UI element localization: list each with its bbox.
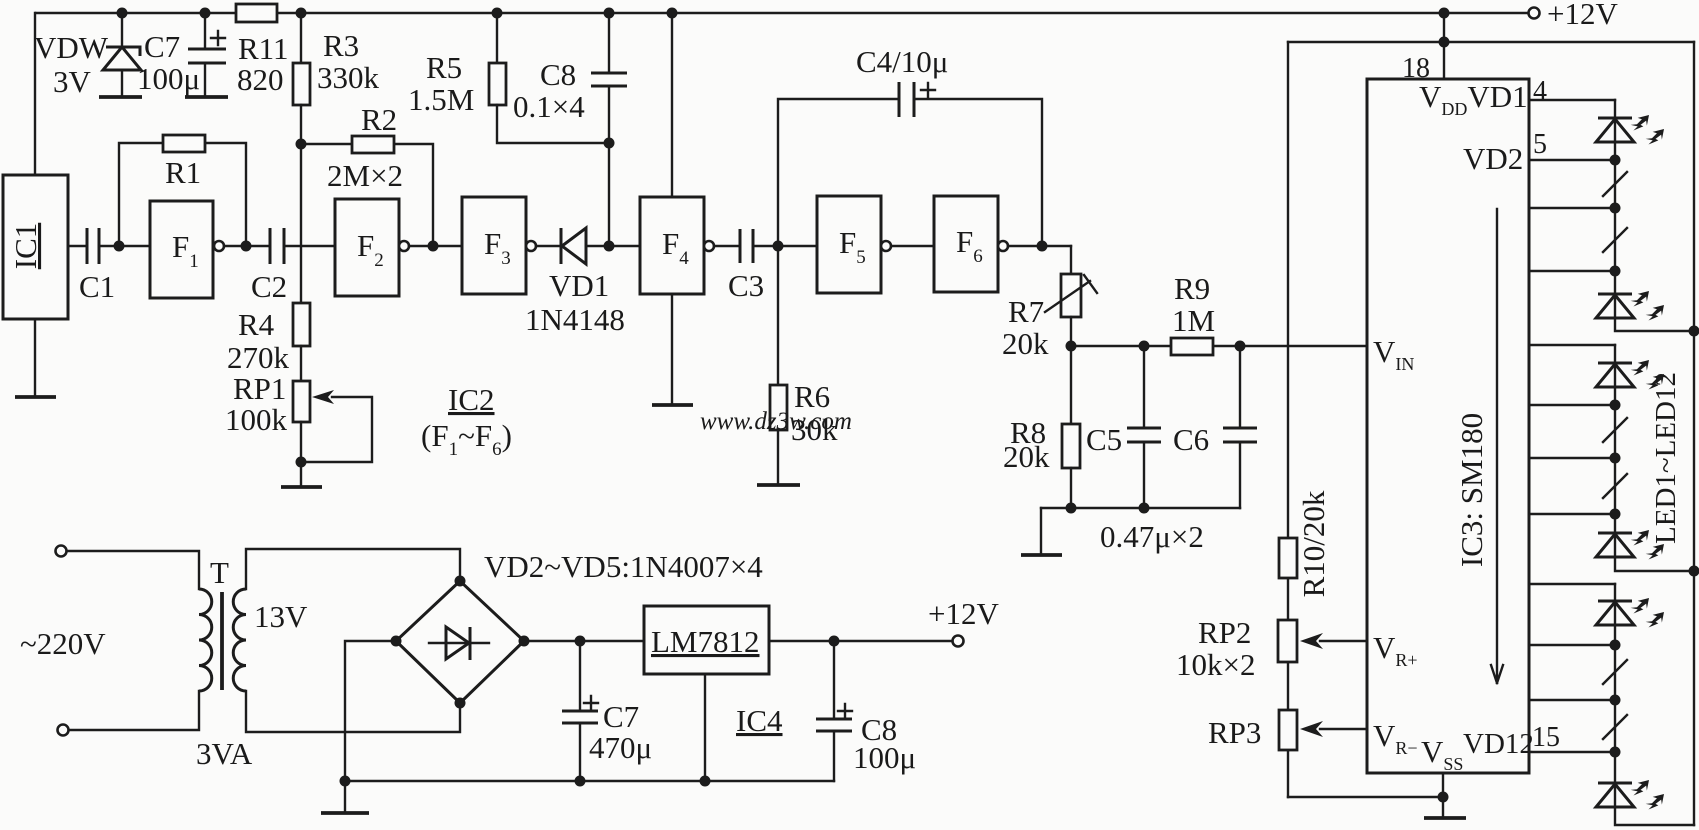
svg-text:C3: C3: [728, 268, 764, 303]
svg-text:C1: C1: [79, 269, 115, 304]
svg-text:10k×2: 10k×2: [1176, 647, 1255, 682]
svg-text:RP3: RP3: [1208, 715, 1261, 750]
wire: LED anode bus (right): [1689, 42, 1699, 825]
svg-text:R10/20k: R10/20k: [1296, 490, 1331, 597]
node: F5 input junction: [773, 241, 784, 252]
filter stage F6: [934, 196, 1008, 292]
svg-text:VD12: VD12: [1463, 728, 1534, 760]
ground (below C5 rail): [1021, 553, 1062, 557]
svg-text:C8: C8: [540, 57, 576, 92]
wire: +12V branch to IC3 (upper right): [1288, 13, 1694, 48]
wire: LED group1 column: [1610, 100, 1695, 331]
omitted LED mark: [1603, 172, 1627, 196]
wire: LED group2 column: [1610, 345, 1695, 571]
node: VD1 cathode junction: [604, 241, 615, 252]
resistor R3 (bias from +12V): [293, 13, 380, 303]
svg-text:IC2: IC2: [448, 382, 495, 417]
node: C8 junction: [829, 636, 840, 647]
filter stage F5: [817, 196, 891, 293]
svg-text:+12V: +12V: [1547, 0, 1618, 31]
svg-text:F3: F3: [484, 226, 511, 269]
label IC2 (F1~F6): [421, 382, 512, 460]
svg-text:C4/10μ: C4/10μ: [856, 44, 948, 79]
filter stage F4: [640, 197, 714, 294]
svg-text:270k: 270k: [227, 340, 290, 375]
svg-text:0.47μ×2: 0.47μ×2: [1100, 519, 1204, 554]
svg-text:0.1×4: 0.1×4: [513, 89, 585, 124]
capacitor C4 (10u feedback): [778, 44, 1042, 246]
svg-text:VSS: VSS: [1421, 734, 1463, 774]
op-amp U1: IC3 SM180 level driver box: [1367, 79, 1534, 774]
capacitor C7 (100u filter at VDW): [137, 13, 226, 96]
svg-text:F2: F2: [357, 228, 384, 271]
resistor R1 (feedback around F1): [119, 135, 246, 246]
node: C7 junction: [575, 636, 586, 647]
svg-text:VD1: VD1: [549, 268, 609, 303]
svg-text:C6: C6: [1173, 422, 1209, 457]
svg-text:(F1~F6): (F1~F6): [421, 418, 512, 460]
svg-text:3VA: 3VA: [196, 736, 253, 771]
node: R5/C8 junction: [604, 138, 615, 149]
svg-text:www.dz3w.com: www.dz3w.com: [700, 408, 852, 435]
wire: reference divider column: [1287, 42, 1289, 797]
zener diode VDW 3V: [34, 13, 141, 99]
svg-text:C5: C5: [1086, 422, 1122, 457]
wire: regulator output: [769, 640, 953, 642]
node: RP1 wiper tie junction: [296, 457, 307, 468]
capacitor C6: [1173, 346, 1257, 508]
svg-text:2M×2: 2M×2: [327, 158, 403, 193]
resistor R8 (20k): [1003, 346, 1080, 508]
node +12V terminal (top right): [1529, 0, 1619, 31]
potentiometer RP1: [225, 371, 372, 487]
label T / 13V / 3VA: [196, 555, 308, 771]
svg-text:F5: F5: [839, 225, 866, 268]
svg-text:F4: F4: [662, 226, 689, 269]
svg-text:C7: C7: [144, 29, 180, 64]
svg-text:RP1: RP1: [233, 371, 286, 406]
svg-text:VD2~VD5:1N4007×4: VD2~VD5:1N4007×4: [484, 549, 763, 584]
svg-text:4: 4: [1533, 76, 1547, 107]
svg-text:1M: 1M: [1172, 303, 1215, 338]
filter stage F1: [150, 201, 224, 298]
wire: LED group3 column: [1610, 584, 1695, 825]
svg-text:T: T: [210, 555, 229, 590]
wire: IC1 to ground: [34, 319, 36, 397]
wire: LED group1 pin stubs: [1529, 100, 1615, 271]
ground (below RP1): [281, 485, 322, 489]
LED LED5: [1596, 356, 1668, 394]
wire: F4 supply stub: [671, 13, 673, 197]
svg-text:13V: 13V: [254, 599, 308, 634]
svg-text:RP2: RP2: [1198, 615, 1251, 650]
svg-text:1N4148: 1N4148: [525, 302, 625, 337]
node: ground rail junction: [340, 776, 351, 787]
wire: +12V top supply bus: [36, 8, 1528, 19]
node: R2 branch junction: [296, 139, 307, 150]
wire: VSS return: [1288, 773, 1449, 818]
LED LED4: [1596, 287, 1668, 325]
svg-text:R5: R5: [426, 50, 462, 85]
potentiometer RP3: [1208, 710, 1367, 750]
omitted LED mark: [1603, 418, 1627, 442]
resistor R11: [236, 4, 289, 97]
svg-text:R2: R2: [361, 102, 397, 137]
svg-text:20k: 20k: [1003, 439, 1050, 474]
resistor R9 (1M): [1171, 271, 1215, 355]
svg-text:VD2: VD2: [1463, 141, 1523, 176]
resistor R10 (20k): [1279, 490, 1331, 597]
wire: LED group3 pin stubs: [1529, 584, 1615, 752]
LED LED8: [1596, 526, 1668, 564]
capacitor C7 (470u): [562, 641, 652, 781]
svg-text:IC4: IC4: [736, 703, 783, 738]
svg-text:820: 820: [237, 62, 284, 97]
wire: bridge negative to ground rail: [345, 641, 396, 781]
omitted LED mark: [1603, 715, 1627, 739]
svg-text:VR−: VR−: [1373, 718, 1418, 758]
ground (below F4): [652, 403, 693, 407]
svg-text:LM7812: LM7812: [651, 624, 760, 659]
regulator IC4 LM7812: [644, 606, 783, 738]
ground (below C7): [185, 95, 228, 99]
wire: mains to transformer primary: [67, 551, 199, 730]
resistor R6 (30k): [770, 246, 838, 485]
omitted LED mark: [1603, 228, 1627, 252]
svg-text:F1: F1: [172, 229, 199, 272]
node: F6 output junction: [1037, 241, 1048, 252]
svg-text:F6: F6: [956, 224, 983, 267]
wire: F6 out: [1008, 245, 1071, 247]
svg-text:C2: C2: [251, 269, 287, 304]
resistor R4: [227, 303, 310, 381]
ground (below VDW): [99, 95, 142, 99]
capacitor C2: [224, 228, 335, 304]
LED LED9: [1596, 594, 1668, 632]
svg-text:R4: R4: [238, 307, 275, 342]
capacitor C3: [714, 229, 817, 303]
omitted LED mark: [1603, 660, 1627, 684]
svg-text:1.5M: 1.5M: [408, 82, 474, 117]
node: F2 output junction (R2 return): [428, 241, 439, 252]
wire: F2 out to F3 in: [409, 245, 462, 247]
LED LED12: [1596, 776, 1668, 814]
IC1 (sensor block): [3, 175, 68, 319]
LED LED1: [1596, 111, 1668, 149]
svg-text:20k: 20k: [1002, 326, 1049, 361]
svg-text:LED1~LED12: LED1~LED12: [1650, 372, 1682, 544]
svg-text:IC3: SM180: IC3: SM180: [1454, 413, 1489, 567]
svg-text:100k: 100k: [225, 402, 288, 437]
node +12V output terminal: [928, 596, 999, 647]
svg-text:VR+: VR+: [1373, 630, 1418, 670]
rheostat R7 (20k): [1002, 246, 1097, 361]
svg-text:R1: R1: [165, 155, 201, 190]
wire: regulator ground pin: [704, 674, 706, 781]
svg-text:3V: 3V: [53, 64, 92, 99]
svg-text:330k: 330k: [317, 60, 380, 95]
diode VD1 1N4148: [525, 228, 640, 337]
wire: F4 to ground: [671, 294, 673, 405]
svg-text:470μ: 470μ: [589, 730, 652, 765]
svg-text:R9: R9: [1174, 271, 1210, 306]
filter stage F3: [462, 197, 536, 294]
svg-text:R3: R3: [323, 28, 359, 63]
wire: VIN node line: [1066, 341, 1368, 352]
capacitor C8 (100u): [816, 641, 916, 781]
ground (PSU): [321, 781, 369, 813]
svg-text:C7: C7: [603, 699, 639, 734]
svg-text:IC1: IC1: [8, 223, 43, 270]
node: F1 output junction: [241, 241, 252, 252]
capacitor C1: [68, 228, 150, 304]
svg-text:+12V: +12V: [928, 596, 999, 631]
svg-text:~220V: ~220V: [20, 626, 106, 661]
filter stage F2: [335, 199, 409, 296]
node ~220V input terminals: [20, 546, 106, 736]
bridge rectifier VD2~VD5: [391, 549, 764, 709]
transformer T core: [220, 592, 224, 690]
wire: IC1 supply from bus: [34, 13, 36, 175]
node: F1 input junction: [114, 241, 125, 252]
svg-text:R7: R7: [1008, 294, 1044, 329]
svg-text:VIN: VIN: [1373, 334, 1414, 374]
wire: LED group2 pin stubs: [1529, 345, 1615, 514]
resistor R5 (1.5M): [408, 13, 609, 143]
wire: C5/C6/R8 ground rail: [1041, 503, 1240, 556]
svg-text:5: 5: [1533, 129, 1547, 160]
ground (below IC1): [15, 395, 56, 399]
wire: bridge + to regulator: [524, 640, 644, 642]
wire: pin 18 supply stub: [1443, 42, 1445, 79]
ground (below R6): [757, 483, 800, 487]
capacitor C5: [1086, 346, 1161, 508]
svg-text:VDDVD1: VDDVD1: [1419, 79, 1528, 119]
capacitor C8 (0.1x4): [513, 13, 627, 246]
omitted LED mark: [1603, 474, 1627, 498]
transformer T primary winding: [199, 589, 212, 691]
svg-text:VDW: VDW: [34, 30, 109, 65]
svg-text:100μ: 100μ: [137, 61, 200, 96]
transformer T secondary winding: [233, 589, 246, 691]
svg-text:R11: R11: [238, 31, 289, 66]
wire: PSU ground rail: [345, 776, 834, 787]
ground (VSS): [1424, 816, 1466, 820]
svg-text:100μ: 100μ: [853, 740, 916, 775]
potentiometer RP2: [1176, 615, 1367, 682]
wire: secondary to bridge: [246, 549, 460, 732]
wire: F5 out to F6 in: [891, 245, 934, 247]
resistor R2 (feedback around F2): [301, 102, 433, 246]
svg-text:15: 15: [1532, 722, 1560, 753]
